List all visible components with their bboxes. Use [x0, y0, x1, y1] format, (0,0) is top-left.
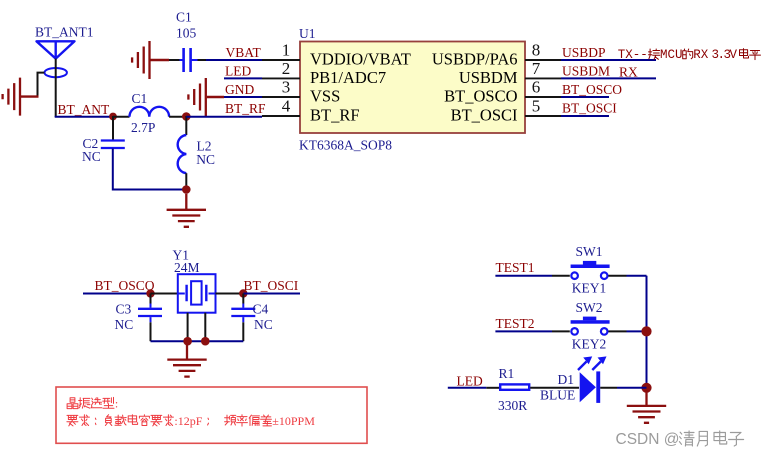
note line2 要求：负载电容要求:12pF；频率偏差±10PPM — [67, 415, 96, 426]
svg-text::: : — [115, 397, 118, 411]
svg-text:3.3V: 3.3V — [712, 48, 738, 62]
svg-text:NC: NC — [196, 152, 215, 167]
wire BT_RF net — [186, 116, 262, 118]
svg-text:C1: C1 — [176, 10, 192, 25]
svg-text::12pF: :12pF — [174, 414, 202, 428]
svg-text:TEST1: TEST1 — [496, 260, 535, 275]
svg-text:RX: RX — [619, 65, 638, 80]
svg-text:5: 5 — [532, 97, 541, 116]
junction bus LED — [641, 383, 651, 393]
svg-text:C3: C3 — [116, 302, 132, 317]
svg-text:SW1: SW1 — [576, 244, 603, 259]
svg-text:BT_ANT1: BT_ANT1 — [35, 25, 94, 40]
ground below LED — [627, 390, 666, 423]
svg-text:KEY1: KEY1 — [572, 281, 607, 296]
junction bus SW2 — [641, 326, 651, 336]
svg-text:USBDM: USBDM — [562, 64, 610, 79]
ground (C1 105) — [132, 41, 149, 79]
wire Y1 to J5 — [216, 293, 244, 295]
switch SW1 contacts — [571, 272, 578, 279]
switch SW1 left lead — [552, 275, 570, 277]
wire R1 to D1 — [530, 387, 579, 389]
svg-text:24M: 24M — [174, 260, 200, 275]
wire C1 105 to VBAT — [198, 59, 207, 61]
svg-text:USBDM: USBDM — [459, 68, 518, 87]
pin 7 right — [525, 77, 561, 79]
svg-text:VSS: VSS — [310, 87, 340, 106]
wire antenna down — [55, 59, 57, 117]
pin 1 left — [262, 59, 300, 61]
switch SW2 contacts — [571, 328, 578, 335]
wire right bus — [646, 276, 648, 388]
wire J4 to Y1 — [151, 293, 179, 295]
junction J5 — [239, 289, 247, 297]
svg-text:4: 4 — [282, 97, 291, 116]
ground lead (C1 105) — [151, 59, 170, 61]
inductor L2 — [178, 135, 187, 173]
wire LED net — [224, 77, 262, 79]
wire SW1 to bus — [627, 275, 647, 277]
wire TEST2 — [495, 330, 552, 332]
junction J1 — [109, 113, 117, 121]
wire LED to R1 — [448, 387, 487, 389]
svg-text:NC: NC — [254, 317, 273, 332]
switch SW2 left lead — [552, 330, 570, 332]
wire SW2 to bus — [627, 330, 647, 332]
svg-text:±10PPM: ±10PPM — [272, 414, 315, 428]
svg-text:8: 8 — [532, 41, 541, 60]
svg-text:GND: GND — [225, 82, 254, 97]
svg-text:BT_OSCO: BT_OSCO — [562, 82, 622, 97]
svg-text:BT_RF: BT_RF — [225, 101, 266, 116]
svg-text:LED: LED — [457, 374, 483, 389]
svg-text:BLUE: BLUE — [540, 388, 575, 403]
svg-text:330R: 330R — [498, 398, 527, 413]
wire C4 to bus — [242, 322, 244, 341]
wire crystal ground bus — [151, 340, 244, 342]
svg-text:R1: R1 — [499, 366, 515, 381]
ground lead (pin3) — [207, 96, 224, 98]
svg-text:USBDP/PA6: USBDP/PA6 — [432, 50, 518, 69]
note line1 晶振选型: — [67, 397, 114, 408]
pin 4 left — [262, 115, 300, 117]
switch SW2 actuator — [583, 317, 596, 321]
svg-text:BT_OSCI: BT_OSCI — [562, 101, 617, 116]
svg-text:SW2: SW2 — [576, 300, 603, 315]
svg-text:VBAT: VBAT — [226, 45, 262, 60]
switch SW2 bar — [571, 320, 610, 324]
wire D1 to bus black — [600, 387, 617, 389]
wire J4 to C3 — [150, 294, 152, 304]
wire crystal leg 1 — [187, 313, 189, 342]
svg-text:BT_OSCI: BT_OSCI — [244, 278, 299, 293]
wire to R1 black — [486, 387, 500, 389]
pin 5 right — [525, 115, 561, 117]
svg-text:NC: NC — [115, 317, 134, 332]
switch SW1 bar — [571, 265, 610, 269]
wire TEST1 — [495, 275, 552, 277]
svg-text:7: 7 — [532, 59, 541, 78]
ground (pin3) — [188, 78, 205, 116]
svg-text:6: 6 — [532, 78, 541, 97]
pin 6 right — [525, 96, 561, 98]
note box — [56, 387, 367, 443]
svg-text:2.7P: 2.7P — [131, 120, 155, 135]
svg-text:2: 2 — [282, 59, 291, 78]
switch SW2 right lead — [608, 330, 626, 332]
capacitor C1 105 — [180, 48, 198, 72]
junction crystal leg2 — [201, 337, 210, 346]
svg-text:3: 3 — [282, 78, 291, 97]
wire USBDM — [561, 77, 656, 79]
svg-text:RX: RX — [693, 48, 709, 62]
svg-text:NC: NC — [82, 149, 101, 164]
svg-text:KT6368A_SOP8: KT6368A_SOP8 — [299, 138, 392, 153]
svg-text:KEY2: KEY2 — [572, 336, 607, 351]
wire antenna tap step — [38, 73, 45, 97]
svg-text:105: 105 — [176, 26, 197, 41]
wire J2 to L2 — [185, 116, 187, 135]
wire BT_ANT — [55, 116, 113, 118]
svg-text:BT_OSCO: BT_OSCO — [444, 87, 517, 106]
LED D1 arrows — [578, 357, 606, 370]
capacitor C1 2.7P arcs — [130, 107, 170, 117]
svg-text:BT_RF: BT_RF — [310, 106, 360, 125]
svg-text:U1: U1 — [299, 26, 316, 41]
svg-text:C4: C4 — [253, 302, 269, 317]
wire C3 to bus — [150, 322, 152, 341]
svg-text:PB1/ADC7: PB1/ADC7 — [310, 68, 386, 87]
LED D1 body — [580, 371, 601, 403]
ground below crystal — [167, 345, 206, 377]
crystal Y1 — [178, 274, 216, 313]
capacitor C4 — [231, 309, 255, 316]
resistor R1 — [500, 384, 529, 389]
svg-text:C1: C1 — [132, 91, 148, 106]
svg-text:TX--: TX-- — [618, 48, 648, 62]
wire BT_OSCO pin6 — [561, 96, 609, 98]
switch SW1 actuator — [583, 261, 596, 265]
capacitor C3 — [138, 309, 162, 316]
junction crystal leg1 — [183, 337, 192, 346]
wire C2 to J3 — [113, 149, 187, 190]
wire USBDP — [561, 59, 656, 61]
wire ground to C1 105 — [169, 59, 180, 61]
ground (antenna) — [3, 78, 20, 116]
wire D1 to bus navy — [617, 387, 647, 389]
wire VBAT — [206, 59, 262, 61]
wire BT_OSCI crystal — [243, 293, 300, 295]
wire BT_OSCO crystal — [83, 293, 151, 295]
ground lead (antenna) — [21, 95, 39, 97]
junction J3 — [182, 185, 191, 194]
wire GND net — [224, 96, 262, 98]
pin 3 left — [262, 96, 300, 98]
svg-text:LED: LED — [225, 64, 251, 79]
svg-text:MCU: MCU — [660, 48, 683, 62]
svg-text:BT_OSCO: BT_OSCO — [95, 278, 155, 293]
junction J2 — [182, 112, 191, 121]
junction J4 — [146, 289, 154, 297]
wire BT_OSCI pin5 — [561, 115, 609, 117]
svg-text:BT_ANT: BT_ANT — [58, 102, 110, 117]
wire crystal leg 2 — [204, 313, 206, 342]
IC U1 KT6368A_SOP8 body — [300, 42, 525, 134]
svg-text:VDDIO/VBAT: VDDIO/VBAT — [310, 50, 411, 69]
wire J5 to C4 — [242, 294, 244, 304]
switch SW1 right lead — [608, 275, 626, 277]
capacitor C2 — [101, 141, 125, 149]
ground below J3 — [167, 194, 206, 227]
wire L2 to J3 — [185, 173, 187, 189]
svg-text:BT_OSCI: BT_OSCI — [451, 106, 518, 125]
svg-text:1: 1 — [282, 41, 291, 60]
pin 2 left — [262, 77, 300, 79]
wire C1 to J2 — [169, 116, 186, 118]
wire J1 to C2 — [112, 116, 114, 140]
antenna BT_ANT1 — [37, 41, 75, 77]
svg-text:TEST2: TEST2 — [496, 316, 535, 331]
svg-text:USBDP: USBDP — [562, 45, 606, 60]
wire J1 to C1 — [113, 116, 130, 118]
svg-text:D1: D1 — [558, 372, 575, 387]
pin 8 right — [525, 59, 561, 61]
svg-text:CSDN @: CSDN @ — [616, 431, 680, 448]
